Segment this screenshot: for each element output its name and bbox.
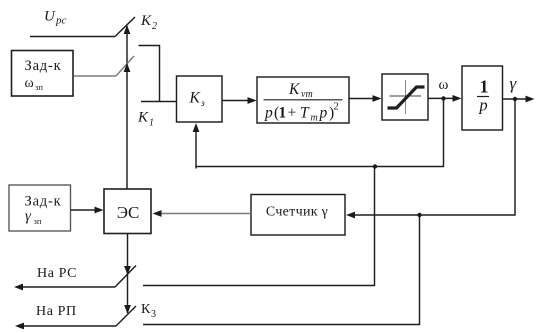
svg-text:2: 2 [334, 102, 339, 113]
svg-text:К: К [140, 13, 152, 29]
svg-text:p: p [264, 105, 273, 122]
svg-text:2: 2 [152, 21, 157, 32]
svg-text:Счетчик γ: Счетчик γ [266, 205, 328, 220]
svg-text:vm: vm [301, 89, 313, 100]
svg-text:ω: ω [439, 77, 449, 93]
svg-text:з: з [200, 99, 205, 109]
svg-text:К: К [189, 90, 201, 107]
svg-text:К: К [288, 81, 300, 98]
svg-text:1: 1 [279, 105, 287, 122]
svg-text:Зад-к: Зад-к [25, 194, 62, 210]
svg-text:1: 1 [149, 118, 154, 129]
svg-text:p: p [478, 96, 487, 115]
svg-text:ЭС: ЭС [117, 203, 140, 222]
svg-text:m: m [311, 113, 318, 124]
svg-text:зп: зп [35, 82, 43, 92]
svg-text:К: К [141, 302, 151, 317]
svg-text:+: + [288, 105, 297, 122]
svg-text:1: 1 [480, 77, 489, 97]
svg-text:p: p [319, 105, 328, 122]
svg-text:3: 3 [151, 309, 156, 320]
svg-text:На РП: На РП [36, 304, 77, 319]
svg-text:pc: pc [55, 15, 67, 27]
svg-text:U: U [44, 9, 56, 25]
svg-text:К: К [137, 110, 149, 126]
svg-text:T: T [300, 105, 310, 122]
svg-text:Зад-к: Зад-к [25, 58, 62, 74]
svg-text:На РС: На РС [37, 266, 77, 281]
svg-text:зп: зп [34, 216, 42, 226]
svg-text:ω: ω [25, 76, 34, 91]
